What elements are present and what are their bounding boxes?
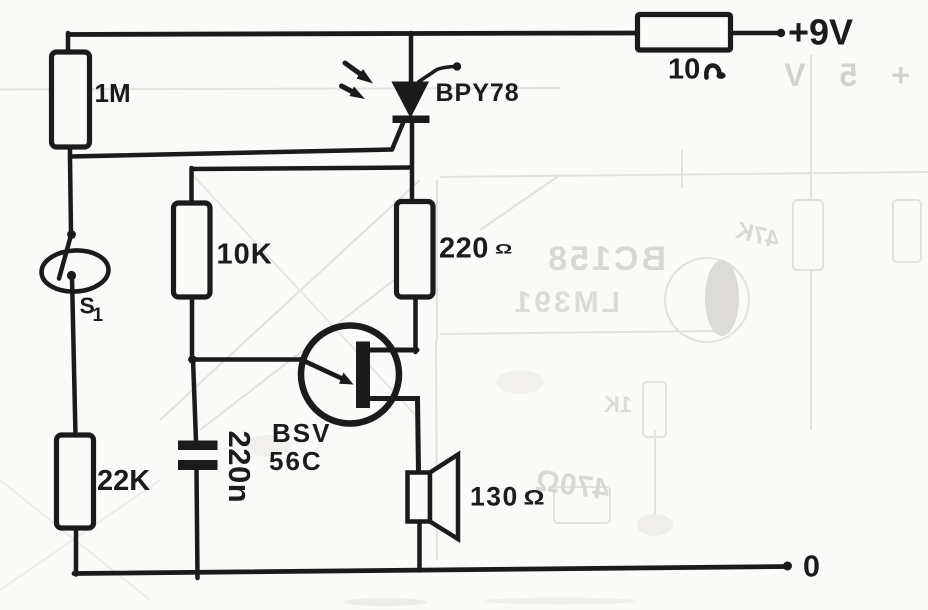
transistor BSV56C emitter lead xyxy=(370,399,419,473)
svg-text:22K: 22K xyxy=(97,465,150,497)
wire: stem from rail to 1M xyxy=(66,33,71,53)
resistor 10K xyxy=(174,203,211,297)
svg-text:BC158: BC158 xyxy=(545,240,666,278)
wire: capacitor to 0 rail xyxy=(197,470,198,578)
wire: diagonal up to cathode bar xyxy=(392,123,403,150)
wire: node A horizontal to photodiode cathode xyxy=(70,150,392,157)
svg-text:BPY78: BPY78 xyxy=(436,79,520,107)
wire: base lead xyxy=(193,357,303,362)
transistor BSV56C base arrow xyxy=(301,360,343,380)
svg-text:+5V: +5V xyxy=(750,57,910,93)
switch S1 top contact dot xyxy=(67,230,76,239)
resistor 10 ohm (top right) xyxy=(638,15,731,51)
wire: switch to 22K xyxy=(72,277,76,436)
svg-text:1M: 1M xyxy=(95,78,131,108)
node: base junction dot xyxy=(188,355,197,364)
svg-text:0: 0 xyxy=(803,550,820,584)
switch S1 lever xyxy=(59,237,71,279)
wire: base node down to capacitor xyxy=(193,359,196,441)
wire: rail from 10-ohm to +9V terminal xyxy=(731,31,779,36)
resistor 1M xyxy=(52,52,90,147)
wire: top +9V rail xyxy=(68,33,638,35)
wire: node B horizontal (cathode to 10K) xyxy=(192,168,411,170)
speaker 130 ohm body xyxy=(408,473,431,522)
wire: cathode down to 220 ohm xyxy=(410,123,415,203)
wire: stem down to 10K xyxy=(189,168,194,204)
svg-text:1: 1 xyxy=(93,305,104,326)
capacitor 220n bottom plate xyxy=(178,460,218,470)
wire: 22K to 0 rail xyxy=(74,528,79,575)
resistor 220 ohm xyxy=(397,202,434,298)
svg-text:+9V: +9V xyxy=(788,12,853,53)
photodiode BPY78 triangle xyxy=(393,83,428,117)
photodiode BPY78 anode wire xyxy=(409,33,414,84)
svg-text:LM391: LM391 xyxy=(512,286,620,319)
wire: 10K bottom to base node xyxy=(190,297,195,360)
node: 0 terminal dot xyxy=(783,562,792,571)
wire: third-lead with dot xyxy=(419,67,455,82)
wire: speaker to 0 rail xyxy=(417,522,422,571)
switch S1 bottom contact dot xyxy=(67,271,76,280)
svg-text:Ω: Ω xyxy=(524,486,545,510)
svg-text:130: 130 xyxy=(470,482,519,512)
light arrow 1 xyxy=(345,63,361,75)
wire: bottom 0 rail xyxy=(74,567,787,574)
switch S1 ellipse xyxy=(40,249,109,293)
svg-text:Ω: Ω xyxy=(495,242,512,257)
transistor BSV56C circle xyxy=(301,326,399,424)
svg-text:1K: 1K xyxy=(604,392,632,417)
node: dot on third lead xyxy=(453,62,461,70)
wire: 220 ohm bottom to collector xyxy=(413,297,418,352)
wire: 1M bottom to switch xyxy=(70,147,71,233)
photodiode BPY78 cathode bar xyxy=(393,116,430,124)
transistor BSV56C collector lead xyxy=(370,348,417,353)
transistor BSV56C base bar xyxy=(356,342,370,409)
speaker 130 ohm horn xyxy=(430,455,458,540)
svg-text:BSV: BSV xyxy=(272,418,331,448)
svg-text:10: 10 xyxy=(668,54,700,86)
svg-text:220: 220 xyxy=(439,233,489,265)
svg-text:56C: 56C xyxy=(269,446,323,476)
node: +9V terminal dot xyxy=(777,29,785,37)
svg-text:10K: 10K xyxy=(217,239,273,271)
resistor 22K xyxy=(57,435,94,528)
light arrow 2 xyxy=(342,86,353,92)
svg-text:220n: 220n xyxy=(222,431,257,504)
capacitor 220n top plate xyxy=(178,441,218,451)
